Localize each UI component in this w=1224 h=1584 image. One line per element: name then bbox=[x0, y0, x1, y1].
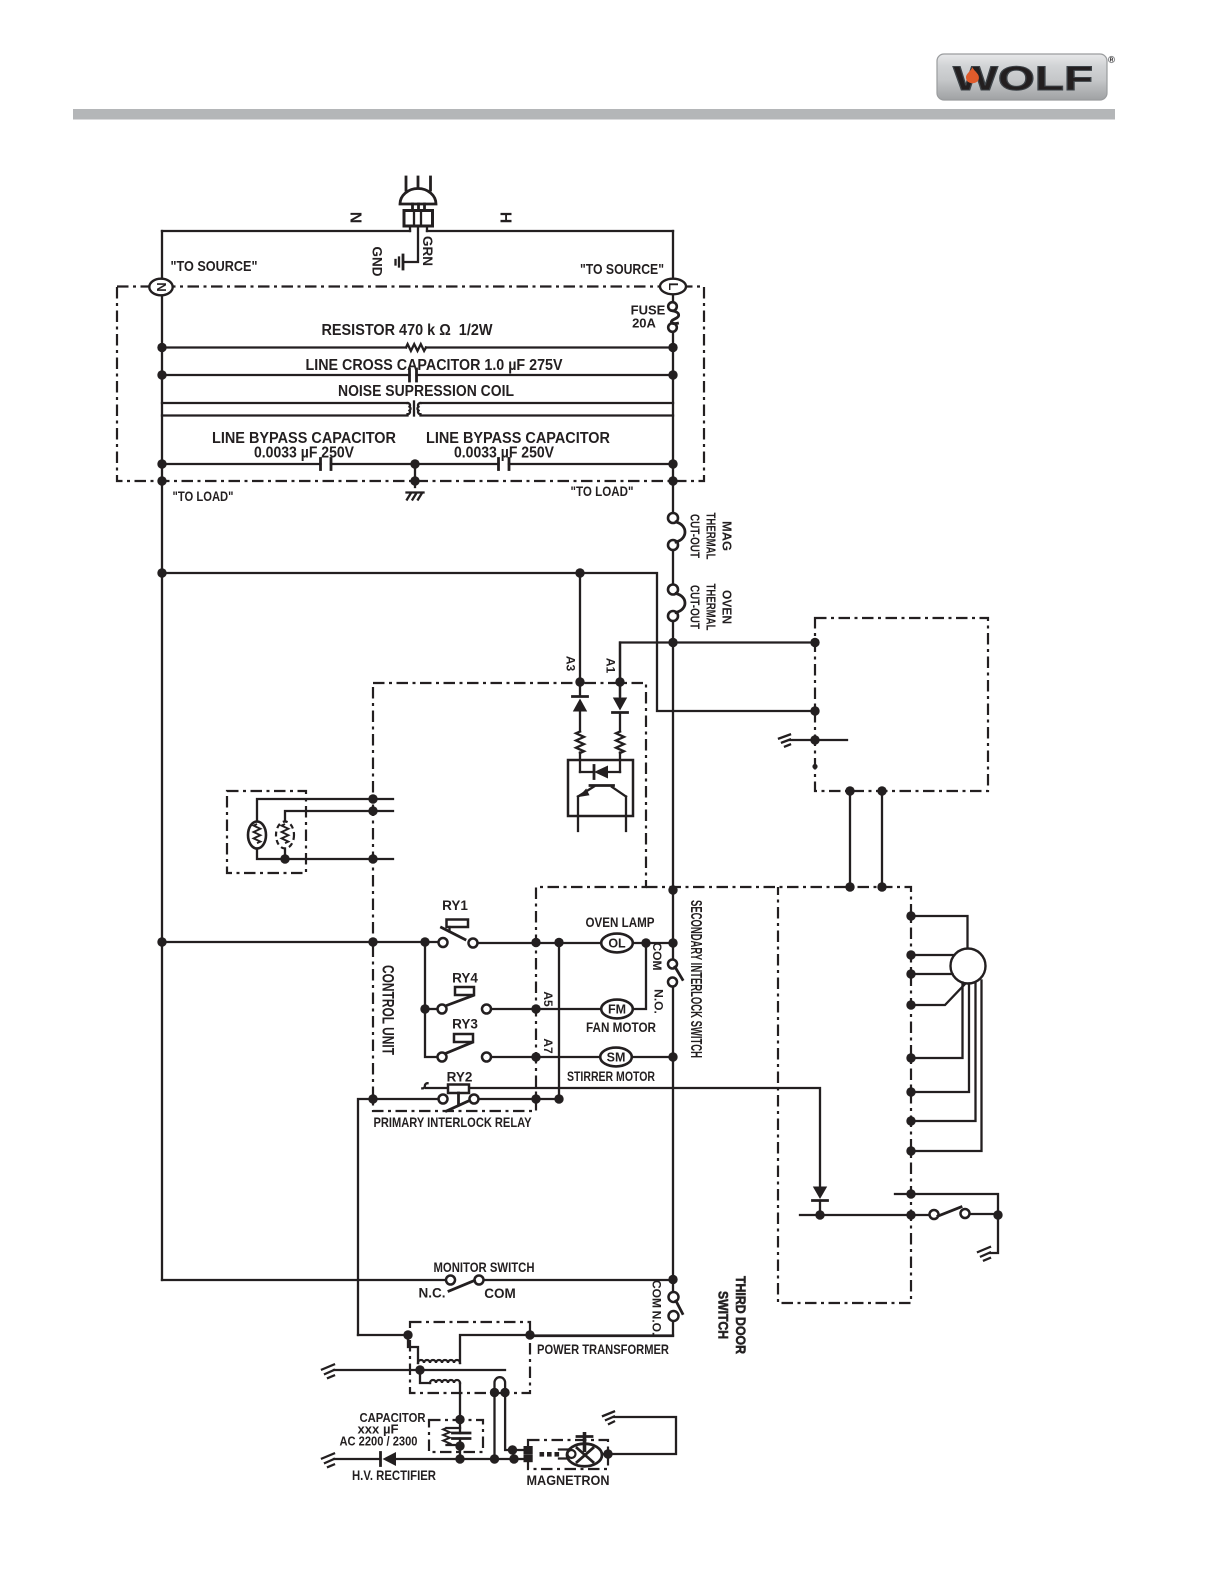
junction (420,1370) bbox=[415, 1365, 424, 1374]
junction (673,1279.5) bbox=[668, 1275, 677, 1284]
junction (460,1419.5) bbox=[455, 1415, 464, 1424]
fan motor FM bbox=[586, 1000, 656, 1035]
ground (HV secondary) bbox=[322, 1365, 334, 1379]
wire: neutral bus to RY1 bbox=[162, 941, 439, 943]
junction (911,1194) bbox=[906, 1189, 915, 1198]
junction (530,1335) bbox=[525, 1330, 534, 1339]
wire: RY2 left lead bbox=[358, 1099, 439, 1335]
junction (673,464) bbox=[668, 459, 677, 468]
HV capacitor C1 bbox=[453, 1433, 471, 1459]
junction (673,1057) bbox=[668, 1052, 677, 1061]
svg-text:N.O.: N.O. bbox=[650, 1311, 664, 1336]
wire: fan motor return bbox=[633, 943, 646, 1009]
GRN ground wire of plug bbox=[404, 226, 419, 262]
wire: third door switch upper link bbox=[895, 1194, 998, 1253]
wire: A3 branch bbox=[579, 573, 581, 772]
junction (425,942) bbox=[420, 937, 429, 946]
svg-text:CUT-OUT: CUT-OUT bbox=[688, 585, 702, 629]
wire: monitor switch row bbox=[162, 1279, 673, 1281]
power transformer boundary (dash-dot box) bbox=[410, 1322, 530, 1393]
wire: relay unit outputs to door switches bbox=[850, 791, 882, 887]
wire: lamp top lead bbox=[257, 799, 393, 822]
label A5 bbox=[541, 991, 555, 1007]
line cross capacitor (wire + plates) bbox=[162, 357, 673, 381]
wire: sensor bottom leads bbox=[257, 849, 393, 860]
svg-text:COM: COM bbox=[650, 1280, 664, 1308]
wire: A1 branch bbox=[619, 643, 621, 773]
junction (911,1058) bbox=[906, 1053, 915, 1062]
oven thermal cut-out bbox=[668, 585, 685, 622]
junction (415,464) bbox=[410, 459, 419, 468]
label TO LOAD (left) bbox=[173, 489, 234, 504]
wire: door cam return 2 bbox=[911, 984, 969, 1093]
junction (494.5,1459) bbox=[490, 1454, 499, 1463]
wire: door cam return 4 bbox=[911, 981, 982, 1152]
junction (998,1215) bbox=[993, 1210, 1002, 1219]
wire: RY3 to stirrer motor bbox=[491, 1056, 601, 1058]
svg-text:THERMAL: THERMAL bbox=[704, 513, 718, 560]
junction (882,791) bbox=[877, 786, 886, 795]
stirrer motor SM bbox=[567, 1048, 655, 1084]
line bypass capacitor (right) bbox=[415, 430, 673, 470]
junction (608,1454) bbox=[603, 1449, 612, 1458]
ground (magnetron case) bbox=[603, 1412, 614, 1425]
svg-text:A1: A1 bbox=[604, 658, 618, 674]
junction (646,943) bbox=[641, 938, 650, 947]
svg-text:MAGNETRON: MAGNETRON bbox=[527, 1472, 610, 1488]
svg-text:OL: OL bbox=[608, 937, 626, 951]
diode D3 (third door switch) bbox=[813, 1187, 828, 1216]
node L terminal bbox=[660, 279, 686, 295]
junction (536,942.5) bbox=[531, 938, 540, 947]
label N.O. (secondary interlock) bbox=[652, 989, 666, 1014]
label TO SOURCE (left) bbox=[171, 258, 258, 275]
wire: RY2 right lead bbox=[479, 1098, 560, 1100]
relay unit boundary (dash-dot box) bbox=[815, 618, 988, 791]
label A7 bbox=[541, 1038, 555, 1054]
junction (512.5,1450) bbox=[508, 1445, 517, 1454]
node N terminal bbox=[149, 279, 172, 296]
junction (580,682) bbox=[575, 677, 584, 686]
door switch mechanism (cam circle) bbox=[951, 949, 986, 984]
svg-text:RY2: RY2 bbox=[447, 1070, 473, 1085]
wire: bypass section top bbox=[162, 414, 673, 416]
svg-text:NOISE SUPRESSION COIL: NOISE SUPRESSION COIL bbox=[338, 383, 514, 400]
junction (514,1459) bbox=[509, 1454, 518, 1463]
svg-text:R: R bbox=[1110, 58, 1114, 64]
wire: oven lamp to line bus bbox=[633, 942, 673, 944]
svg-text:A3: A3 bbox=[564, 656, 578, 672]
ground (bypass center) bbox=[407, 493, 424, 500]
svg-text:OVEN: OVEN bbox=[720, 590, 734, 624]
HV capacitor boundary (dash-dot box) bbox=[429, 1420, 483, 1452]
magnetron V1 bbox=[527, 1432, 610, 1488]
svg-text:N: N bbox=[154, 282, 169, 291]
svg-text:0.0033 µF 250V: 0.0033 µF 250V bbox=[454, 445, 555, 462]
junction (536,1099) bbox=[531, 1094, 540, 1103]
wire: RY1 to oven lamp bbox=[478, 942, 602, 944]
svg-text:L: L bbox=[666, 283, 681, 291]
ground (third door switch) bbox=[978, 1247, 990, 1261]
label N.O. (third door) bbox=[650, 1311, 664, 1336]
label MAG THERMAL CUT-OUT bbox=[688, 513, 734, 560]
svg-text:CONTROL UNIT: CONTROL UNIT bbox=[379, 965, 397, 1055]
svg-text:RY4: RY4 bbox=[452, 971, 478, 986]
wire: left main (neutral) bus bbox=[161, 231, 163, 1280]
svg-text:SECONDARY INTERLOCK SWITCH: SECONDARY INTERLOCK SWITCH bbox=[687, 900, 704, 1058]
junction (460,1446) bbox=[455, 1441, 464, 1450]
wire: thermistor top lead bbox=[285, 811, 393, 822]
svg-text:N.C.: N.C. bbox=[419, 1286, 446, 1301]
svg-text:THIRD DOOR: THIRD DOOR bbox=[733, 1276, 748, 1354]
control unit boundary (dash-dot) bbox=[373, 683, 646, 1111]
wire: top line from plug to N and H sides bbox=[162, 230, 673, 232]
relay RY1 bbox=[439, 898, 478, 948]
label OVEN THERMAL CUT-OUT bbox=[688, 584, 734, 631]
wire: door cam lead 2 bbox=[911, 954, 954, 956]
svg-text:THERMAL: THERMAL bbox=[704, 584, 718, 631]
svg-text:H: H bbox=[497, 212, 514, 224]
diode D2 (A1, cathode down) bbox=[613, 698, 628, 713]
wire: door cam lead 1 bbox=[911, 916, 968, 948]
wire: branch to RY4 bbox=[425, 1008, 438, 1010]
relay RY4 bbox=[438, 971, 492, 1014]
wire: door cam return 3 bbox=[911, 983, 976, 1122]
line bypass capacitor (left) bbox=[162, 430, 415, 470]
junction (580,573) bbox=[575, 568, 584, 577]
junction (673,943) bbox=[668, 938, 677, 947]
diode D1 (A3, cathode up) bbox=[573, 697, 588, 712]
label COM (third door) bbox=[650, 1280, 664, 1308]
transformer T1 filament winding bbox=[495, 1377, 524, 1459]
junction (815,642.5) bbox=[810, 638, 819, 647]
label TO LOAD (right) bbox=[571, 484, 634, 499]
svg-text:H.V. RECTIFIER: H.V. RECTIFIER bbox=[352, 1467, 436, 1483]
junction (373,942) bbox=[368, 937, 377, 946]
junction (911,1151) bbox=[906, 1146, 915, 1155]
junction (505,1392.5) bbox=[500, 1388, 509, 1397]
junction (911,955) bbox=[906, 950, 915, 959]
label A1 bbox=[604, 658, 618, 674]
junction (850,791) bbox=[845, 786, 854, 795]
junction (820,1215) bbox=[815, 1210, 824, 1219]
junction (911,974) bbox=[906, 969, 915, 978]
junction (673,375) bbox=[668, 370, 677, 379]
ground (relay unit) bbox=[779, 735, 790, 747]
junction (911,1092) bbox=[906, 1087, 915, 1096]
svg-text:FAN MOTOR: FAN MOTOR bbox=[586, 1020, 656, 1035]
junction (162,347.5) bbox=[157, 343, 166, 352]
third door switch on line bus bbox=[669, 1292, 683, 1321]
svg-text:0.0033 µF 250V: 0.0033 µF 250V bbox=[254, 445, 355, 462]
svg-text:OVEN LAMP: OVEN LAMP bbox=[586, 915, 655, 930]
svg-text:RY1: RY1 bbox=[442, 898, 468, 913]
wire: relay feeder branch bbox=[425, 942, 438, 1057]
label A3 bbox=[564, 656, 578, 672]
door switch unit boundary (dash-dot) bbox=[646, 887, 911, 1303]
junction (494.5,1392.5) bbox=[490, 1388, 499, 1397]
junction (911,1215) bbox=[906, 1210, 915, 1219]
junction (673,347.5) bbox=[668, 343, 677, 352]
svg-text:MAG: MAG bbox=[720, 521, 734, 551]
wire: A1 feed from relay unit bbox=[620, 643, 815, 697]
wire: left bus to relay unit (upper) bbox=[162, 573, 815, 711]
svg-text:"TO SOURCE": "TO SOURCE" bbox=[580, 261, 664, 278]
junction (559,942.5) bbox=[554, 938, 563, 947]
svg-text:RY3: RY3 bbox=[452, 1017, 478, 1032]
junction (815,711) bbox=[810, 706, 819, 715]
label TO SOURCE (right) bbox=[580, 261, 664, 278]
svg-text:FM: FM bbox=[608, 1003, 626, 1017]
label COM (secondary interlock) bbox=[650, 943, 664, 971]
junction (373,811) bbox=[368, 806, 377, 815]
relay RY2 (primary interlock relay) bbox=[422, 1070, 478, 1112]
junction (673,481) bbox=[668, 476, 677, 485]
monitor switch bbox=[419, 1259, 535, 1301]
junction (162,464) bbox=[157, 459, 166, 468]
junction (536,1057) bbox=[531, 1052, 540, 1061]
wire: magnetron anode to chassis bbox=[602, 1417, 676, 1454]
svg-text:RESISTOR 470 k Ω 1/2W: RESISTOR 470 k Ω 1/2W bbox=[322, 322, 494, 339]
label N (neutral lead) bbox=[347, 212, 364, 224]
mag thermal cut-out bbox=[668, 513, 685, 550]
oven lamp OL bbox=[586, 915, 655, 952]
transformer T1 primary winding bbox=[408, 1335, 530, 1363]
power plug bbox=[400, 177, 436, 231]
diode D4 H.V. rectifier bbox=[352, 1452, 436, 1483]
junction (911,916) bbox=[906, 911, 915, 920]
ground GND (plug) bbox=[396, 255, 404, 269]
ground (HV rectifier line) bbox=[322, 1454, 334, 1468]
resistor R1 (A3 branch) bbox=[576, 732, 584, 754]
junction (162,942) bbox=[157, 937, 166, 946]
svg-text:LINE CROSS CAPACITOR 1.0 µF 27: LINE CROSS CAPACITOR 1.0 µF 275V bbox=[306, 357, 563, 374]
label GRN bbox=[420, 236, 435, 266]
junction (620,682) bbox=[615, 677, 624, 686]
svg-text:POWER TRANSFORMER: POWER TRANSFORMER bbox=[537, 1341, 669, 1357]
junction (815,766.5) bbox=[812, 764, 817, 769]
wire: door cam lead 4 bbox=[911, 985, 965, 1006]
svg-text:20A: 20A bbox=[632, 316, 656, 331]
junction (460,1459) bbox=[455, 1454, 464, 1463]
svg-text:GND: GND bbox=[370, 247, 385, 277]
secondary interlock switch bbox=[668, 960, 683, 987]
svg-text:AC 2200 / 2300: AC 2200 / 2300 bbox=[340, 1434, 418, 1449]
relay RY3 bbox=[438, 1017, 492, 1062]
wire: door cam lead 3 bbox=[911, 973, 953, 975]
svg-text:STIRRER MOTOR: STIRRER MOTOR bbox=[567, 1069, 655, 1084]
junction (408,1335) bbox=[403, 1330, 412, 1339]
svg-text:COM: COM bbox=[650, 943, 664, 971]
junction (911,1005) bbox=[906, 1000, 915, 1009]
header rule bbox=[73, 109, 1115, 120]
junction (815,740) bbox=[810, 735, 819, 744]
resistor R2 (A1 branch) bbox=[616, 732, 624, 754]
svg-text:A5: A5 bbox=[541, 991, 555, 1007]
svg-text:"TO LOAD": "TO LOAD" bbox=[571, 484, 634, 499]
label PRIMARY INTERLOCK RELAY bbox=[374, 1114, 533, 1130]
label CAPACITOR xxx uF AC 2200/2300 bbox=[340, 1410, 427, 1449]
svg-text:COM: COM bbox=[484, 1286, 516, 1301]
junction (673,890) bbox=[668, 885, 677, 894]
wire: right main (line) bus bbox=[530, 231, 673, 1336]
thermistor RT1 (dashed oval with element) bbox=[276, 822, 294, 849]
wire: HV line bbox=[334, 1458, 523, 1460]
label POWER TRANSFORMER bbox=[537, 1341, 669, 1357]
wire: stirrer motor to line bus bbox=[632, 1056, 673, 1058]
junction (162,481) bbox=[157, 476, 166, 485]
junction (425,1009) bbox=[420, 1004, 429, 1013]
resistor 470k (wire + zigzag) bbox=[162, 322, 673, 351]
junction (162,573) bbox=[157, 568, 166, 577]
label H (hot lead) bbox=[497, 212, 514, 224]
wire: door cam return 1 bbox=[911, 983, 963, 1059]
svg-text:A7: A7 bbox=[541, 1038, 555, 1054]
label CONTROL UNIT bbox=[379, 965, 397, 1055]
bleed resistor R3 (in cap box) bbox=[443, 1428, 460, 1445]
svg-text:PRIMARY INTERLOCK RELAY: PRIMARY INTERLOCK RELAY bbox=[374, 1114, 533, 1130]
junction (415,481) bbox=[410, 476, 419, 485]
svg-text:N.O.: N.O. bbox=[652, 989, 666, 1014]
junction (162,375) bbox=[157, 370, 166, 379]
junction (373,859) bbox=[368, 854, 377, 863]
junction (536,1009) bbox=[531, 1004, 540, 1013]
svg-text:"TO LOAD": "TO LOAD" bbox=[173, 489, 234, 504]
svg-text:SM: SM bbox=[607, 1051, 626, 1065]
fuse 20A bbox=[631, 302, 679, 332]
magnetron filament terminals bbox=[524, 1446, 571, 1462]
wire: relay unit ground stub bbox=[790, 739, 847, 741]
svg-text:N: N bbox=[347, 212, 364, 224]
label THIRD DOOR SWITCH bbox=[716, 1276, 749, 1354]
wire: transformer primary left lead bbox=[358, 1334, 408, 1336]
junction (850,887) bbox=[845, 882, 854, 891]
junction (673,642.5) bbox=[668, 638, 677, 647]
junction (373,799) bbox=[368, 794, 377, 803]
svg-text:"TO SOURCE": "TO SOURCE" bbox=[171, 258, 258, 275]
svg-text:MONITOR SWITCH: MONITOR SWITCH bbox=[434, 1259, 535, 1275]
junction (373,1099) bbox=[368, 1094, 377, 1103]
magnetron boundary (dash-dot box) bbox=[528, 1440, 608, 1469]
wire: transformer right terminal to third door switch bbox=[530, 1334, 673, 1336]
WOLF logo bbox=[937, 54, 1115, 100]
label SECONDARY INTERLOCK SWITCH bbox=[687, 900, 704, 1058]
opto-coupler U1 bbox=[568, 760, 633, 831]
wire: HV secondary ground lead bbox=[334, 1369, 505, 1371]
junction (559,1099) bbox=[554, 1094, 563, 1103]
wire: RY2 coil line to door diode bbox=[426, 1088, 820, 1186]
svg-text:CUT-OUT: CUT-OUT bbox=[688, 514, 702, 558]
svg-text:GRN: GRN bbox=[420, 236, 435, 266]
sensor unit boundary (dash-dot box) bbox=[227, 791, 306, 873]
transformer T1 HV secondary winding bbox=[420, 1370, 460, 1433]
wire: lamp/RY2 return branch bbox=[558, 943, 560, 1100]
junction (285,859) bbox=[280, 854, 289, 863]
third door micro switch contact bbox=[800, 1207, 998, 1219]
wire: bypass center ground stub bbox=[414, 464, 416, 487]
label GND bbox=[370, 247, 385, 277]
wire: RY4 to fan motor bbox=[491, 1008, 602, 1010]
junction (911,1121) bbox=[906, 1116, 915, 1125]
noise suppression coil bbox=[162, 383, 673, 416]
lamp L1 (oval with filament) bbox=[248, 822, 266, 849]
svg-text:SWITCH: SWITCH bbox=[716, 1291, 731, 1339]
junction (882,887) bbox=[877, 882, 886, 891]
noise filter unit boundary (dash-dot box) bbox=[117, 287, 704, 482]
